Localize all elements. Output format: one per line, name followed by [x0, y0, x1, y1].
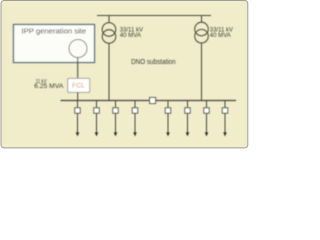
panel background: [1, 1, 248, 148]
bus-section switch: [150, 98, 156, 104]
wire T1 HV stub: [108, 16, 110, 23]
wire generator to FCL: [77, 58, 79, 79]
svg-text:DNO substation: DNO substation: [131, 59, 176, 66]
transformer T2 33/11 kV 40 MVA: [195, 22, 209, 43]
label 11 kV 6.25 MVA: [34, 79, 63, 90]
label T2 value 33/11 kV 40 MVA: [210, 27, 234, 39]
svg-text:40 MVA: 40 MVA: [120, 32, 142, 39]
svg-text:6.25 MVA: 6.25 MVA: [34, 84, 63, 90]
feeder 3: [113, 101, 118, 137]
feeder 8: [222, 101, 227, 137]
IPP generation site box: [14, 25, 95, 63]
label T1 value 33/11 kV 40 MVA: [120, 27, 144, 39]
svg-text:FCL: FCL: [72, 83, 85, 90]
wire T2 HV stub: [201, 16, 203, 23]
busbar 11 kV: [61, 100, 237, 102]
wire T1 LV feeder to busbar: [108, 43, 110, 100]
svg-text:40 MVA: 40 MVA: [210, 32, 232, 39]
feeder 5: [165, 101, 170, 137]
feeder 6: [185, 101, 190, 137]
wire T2 LV feeder to busbar: [201, 43, 203, 101]
wire 33kV incoming line: [97, 15, 211, 17]
FCL fault current limiter: [68, 78, 90, 92]
wire FCL to busbar: [77, 92, 79, 100]
feeder 7: [204, 101, 209, 137]
feeder 2: [94, 101, 99, 137]
generator G: [69, 40, 87, 58]
transformer T1 33/11 kV 40 MVA: [102, 23, 116, 44]
svg-text:IPP generation site: IPP generation site: [22, 28, 87, 35]
feeder 4: [132, 101, 137, 137]
feeder 1: [75, 101, 80, 137]
